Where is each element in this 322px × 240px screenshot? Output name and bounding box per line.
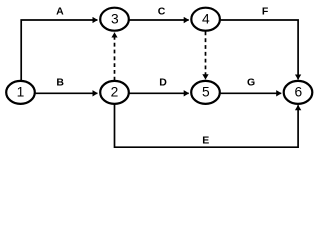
node 3 [100, 8, 129, 31]
svg-text:C: C [158, 6, 166, 18]
wire activity E (node2 down, right, up into node6) [115, 104, 299, 147]
wire activity C (node3 to node4) [129, 19, 188, 21]
svg-text:4: 4 [202, 11, 210, 26]
svg-text:D: D [159, 77, 167, 89]
node 6 [284, 81, 313, 104]
svg-text:A: A [56, 6, 64, 18]
svg-text:B: B [56, 77, 64, 89]
svg-text:2: 2 [111, 85, 119, 100]
wire activity F (node4 right then down into node6) [221, 20, 298, 79]
svg-text:5: 5 [202, 85, 210, 100]
node 1 [6, 81, 35, 104]
wire activity B (node1 to node2) [36, 92, 98, 94]
svg-text:6: 6 [294, 85, 302, 100]
svg-text:3: 3 [111, 11, 119, 26]
node 2 [100, 81, 129, 104]
svg-text:1: 1 [17, 85, 25, 100]
wire activity A (node1 up then right into node3) [21, 20, 97, 80]
wire activity D (node2 to node5) [129, 92, 188, 94]
node 4 [191, 8, 220, 31]
svg-text:G: G [247, 77, 255, 89]
wire activity G (node5 to node6) [221, 92, 282, 94]
node 5 [191, 81, 220, 104]
svg-text:E: E [202, 134, 209, 146]
wire dummy dashed (node2 up into node3) [114, 33, 116, 81]
wire dummy dashed (node4 down into node5) [205, 32, 207, 80]
svg-text:F: F [262, 6, 269, 18]
